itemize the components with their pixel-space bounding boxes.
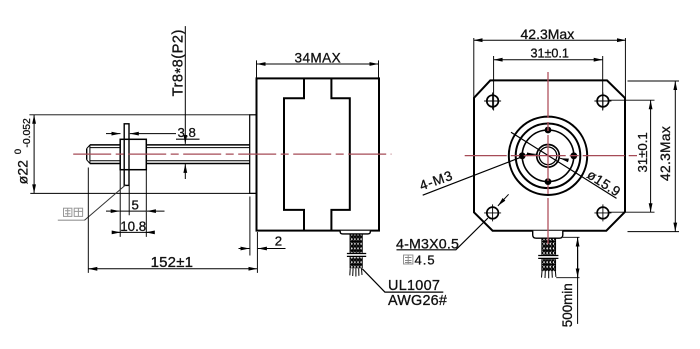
wire bundle (side view) bbox=[347, 234, 366, 277]
motor end-cap contour bbox=[284, 78, 350, 230]
dimension ø22 0/-0.052 bbox=[13, 115, 257, 194]
svg-text:AWG26#: AWG26# bbox=[388, 293, 447, 309]
nut body bbox=[120, 139, 146, 169]
corner mounting holes bbox=[484, 93, 611, 222]
UL1007 / AWG26# leader and labels bbox=[362, 269, 447, 309]
svg-text:ø22: ø22 bbox=[14, 160, 30, 184]
nut flange bbox=[124, 124, 129, 186]
svg-text:31±0.1: 31±0.1 bbox=[635, 132, 650, 172]
front view centerlines bbox=[547, 72, 549, 247]
label 4-M3 bbox=[418, 155, 528, 196]
center circles bbox=[509, 117, 587, 195]
dimension 42.3Max (right) bbox=[628, 81, 680, 232]
centerline (left & middle views) bbox=[73, 153, 391, 155]
nut label (CJK glyph approximations) bbox=[64, 208, 83, 216]
wire exit bump (side view) bbox=[340, 231, 370, 234]
svg-text:5: 5 bbox=[132, 198, 139, 213]
dimension 500min bbox=[556, 237, 579, 327]
dimension 3.8 (flange) bbox=[106, 125, 200, 140]
motor face outline (chamfered square) bbox=[474, 80, 625, 230]
lead screw Tr8 bbox=[87, 145, 250, 164]
svg-text:2: 2 bbox=[275, 233, 282, 248]
dimension 152±1 bbox=[88, 168, 257, 273]
label 深4.5 bbox=[404, 252, 436, 267]
dimension 10.8 (nut) bbox=[112, 170, 150, 237]
svg-text:3.8: 3.8 bbox=[178, 125, 196, 140]
svg-text:500min: 500min bbox=[560, 283, 575, 327]
svg-text:-0.052: -0.052 bbox=[22, 118, 33, 147]
pilot boss of motor bbox=[250, 115, 258, 194]
svg-text:34MAX: 34MAX bbox=[295, 50, 342, 65]
motor body (side view) bbox=[257, 78, 380, 230]
svg-text:0: 0 bbox=[13, 149, 24, 154]
svg-text:31±0.1: 31±0.1 bbox=[531, 47, 569, 61]
svg-text:10.8: 10.8 bbox=[120, 219, 146, 234]
svg-text:UL1007: UL1007 bbox=[388, 278, 440, 294]
dimension 42.3Max (top) bbox=[474, 26, 627, 99]
svg-text:Tr8*8(P2): Tr8*8(P2) bbox=[171, 29, 190, 96]
label 4-M3X0.5 with leader bbox=[396, 194, 509, 252]
nut label leader bbox=[58, 219, 85, 221]
dimension 34MAX bbox=[257, 50, 379, 77]
svg-text:42.3Max: 42.3Max bbox=[658, 126, 673, 181]
wire exit bump (front view) bbox=[533, 231, 563, 238]
svg-text:4.5: 4.5 bbox=[415, 252, 436, 267]
dimension 31±0.1 (top) bbox=[494, 47, 603, 111]
4 face screw holes (dots) bbox=[519, 127, 577, 185]
dimension 5 (nut) bbox=[106, 198, 165, 213]
dimension ø15.9 bbox=[511, 132, 623, 199]
svg-text:152±1: 152±1 bbox=[151, 254, 194, 271]
dimension 31±0.1 (right) bbox=[609, 100, 655, 212]
wire bundle (front view) bbox=[538, 238, 558, 278]
dimension 2 (boss) bbox=[239, 197, 286, 256]
svg-text:42.3Max: 42.3Max bbox=[521, 26, 575, 42]
dimension Tr8*8(P2) bbox=[171, 26, 190, 179]
